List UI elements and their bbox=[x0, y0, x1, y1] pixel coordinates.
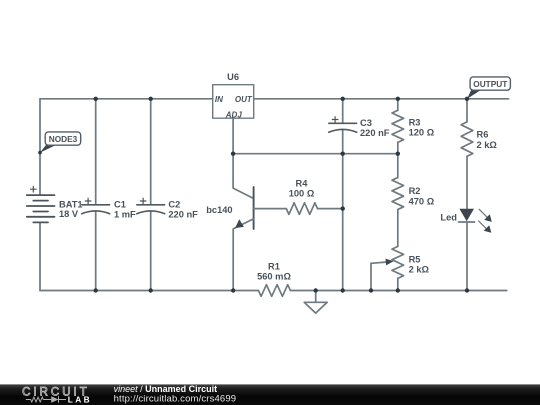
wire bottom rail bbox=[40, 290, 507, 292]
svg-text:100 Ω: 100 Ω bbox=[289, 189, 315, 199]
capacitor C3 bbox=[329, 117, 357, 133]
wire C3 column bbox=[342, 99, 344, 154]
wire R3 leads bbox=[397, 99, 399, 154]
svg-text:OUTPUT: OUTPUT bbox=[473, 79, 507, 89]
LED Led bbox=[459, 209, 492, 233]
svg-text:120 Ω: 120 Ω bbox=[409, 127, 435, 137]
svg-text:ADJ: ADJ bbox=[225, 110, 243, 119]
svg-text:bc140: bc140 bbox=[206, 205, 232, 215]
battery BAT1 bbox=[27, 186, 55, 222]
capacitor C1 bbox=[82, 198, 110, 214]
svg-text:R5: R5 bbox=[409, 255, 421, 265]
node OUTPUT flag bbox=[467, 77, 510, 99]
resistor R1 bbox=[258, 285, 290, 297]
resistor R2 bbox=[392, 178, 404, 210]
wire R2-R5 leads bbox=[397, 154, 399, 291]
svg-text:OUT: OUT bbox=[235, 95, 253, 104]
resistor R6 bbox=[461, 122, 473, 156]
wire C3 node to bottom rail bbox=[342, 154, 344, 291]
svg-text:R6: R6 bbox=[477, 130, 489, 140]
capacitor C2 bbox=[137, 198, 165, 214]
svg-text:NODE3: NODE3 bbox=[49, 134, 78, 144]
svg-text:R1: R1 bbox=[268, 262, 280, 272]
logo schematic squiggle bbox=[26, 396, 66, 402]
resistor R3 bbox=[392, 110, 404, 142]
wire top rail left (battery to U6 IN) bbox=[40, 98, 213, 100]
potentiometer R5 bbox=[371, 246, 404, 290]
svg-text:C2: C2 bbox=[168, 200, 180, 210]
svg-text:U6: U6 bbox=[227, 72, 239, 82]
wire R6/LED column joints bbox=[466, 99, 468, 291]
svg-text:220 nF: 220 nF bbox=[168, 210, 198, 220]
svg-text:IN: IN bbox=[215, 95, 223, 104]
wire left rail (battery column) bbox=[39, 99, 41, 291]
svg-text:470 Ω: 470 Ω bbox=[409, 196, 435, 206]
svg-text:18 V: 18 V bbox=[59, 209, 79, 219]
wire ADJ row (to R3 bottom) bbox=[233, 153, 398, 155]
svg-text:2 kΩ: 2 kΩ bbox=[477, 140, 498, 150]
svg-text:http://circuitlab.com/crs4699: http://circuitlab.com/crs4699 bbox=[114, 394, 237, 405]
node NODE3 flag bbox=[38, 132, 80, 155]
svg-text:220 nF: 220 nF bbox=[360, 128, 390, 138]
ground bbox=[304, 291, 327, 313]
footer bar bbox=[0, 384, 540, 405]
svg-text:R4: R4 bbox=[296, 179, 309, 189]
transistor bc140 bbox=[233, 154, 254, 291]
svg-text:1 mF: 1 mF bbox=[114, 210, 136, 220]
svg-text:C1: C1 bbox=[114, 200, 126, 210]
resistor R4 bbox=[254, 208, 287, 210]
wire R4 right lead to column bbox=[318, 208, 343, 210]
svg-text:C3: C3 bbox=[360, 118, 372, 128]
svg-text:R3: R3 bbox=[409, 117, 421, 127]
svg-text:560 mΩ: 560 mΩ bbox=[257, 272, 291, 282]
svg-text:Led: Led bbox=[440, 212, 457, 222]
wire C2 column bbox=[150, 99, 152, 291]
voltage regulator U6 bbox=[213, 85, 254, 119]
svg-text:2 kΩ: 2 kΩ bbox=[409, 265, 430, 275]
wire C1 column bbox=[95, 99, 97, 291]
svg-text:LAB: LAB bbox=[68, 395, 92, 405]
svg-text:R2: R2 bbox=[409, 186, 421, 196]
wire top rail right (U6 OUT to right stub end) bbox=[254, 98, 509, 100]
wire U6 ADJ to node row bbox=[232, 118, 234, 154]
